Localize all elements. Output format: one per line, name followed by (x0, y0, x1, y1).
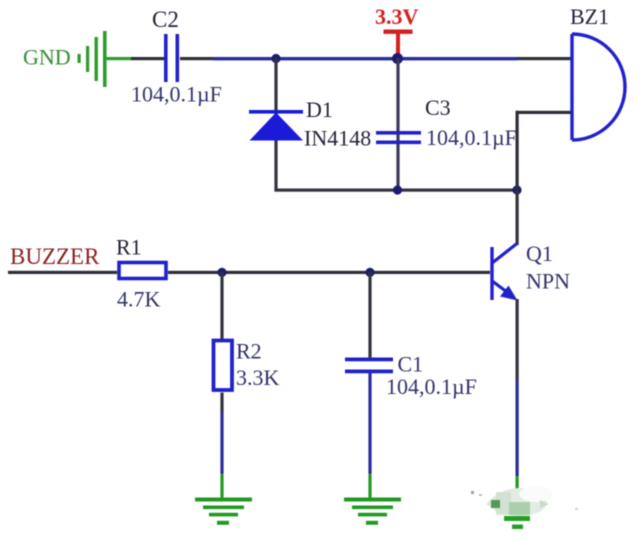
svg-text:BUZZER: BUZZER (10, 244, 100, 269)
wire GND to C2 (green then dark) (107, 57, 132, 60)
svg-text:104,0.1µF: 104,0.1µF (426, 125, 517, 150)
node junction at 3.3V rail (392, 53, 403, 64)
wire top rail blue (213, 57, 517, 60)
node junction R1/R2 (217, 268, 226, 277)
wire top rail dark to buzzer (517, 57, 573, 60)
wire D1 branch vertical (274, 58, 277, 190)
resistor R2 (214, 341, 233, 391)
wire bottom rail of top section (274, 189, 518, 192)
svg-text:104,0.1µF: 104,0.1µF (131, 82, 222, 107)
wire BUZZER input (8, 271, 117, 274)
transistor Q1 (492, 244, 517, 301)
node junction below buzzer wire (512, 185, 521, 194)
ground below R2 (195, 498, 252, 525)
svg-text:R2: R2 (236, 339, 262, 364)
capacitor C2 (164, 34, 179, 82)
svg-text:104,0.1µF: 104,0.1µF (386, 374, 477, 399)
buzzer BZ1 (572, 34, 625, 140)
ground (power ground symbol, rotated, left) (78, 31, 107, 87)
wire C1 to ground (blue then green) (368, 373, 371, 474)
svg-text:NPN: NPN (526, 269, 570, 294)
resistor R1 (119, 263, 166, 279)
svg-text:D1: D1 (306, 97, 333, 122)
node junction at D1 rail (271, 54, 280, 63)
ground below C1 (344, 498, 401, 525)
wire C1 branch vertical (368, 272, 371, 358)
wire R1 to base (168, 271, 490, 274)
wire emitter vertical (dark, blue, green) (516, 299, 519, 380)
power 3.3V symbol (384, 30, 413, 34)
svg-text:C2: C2 (152, 7, 179, 32)
watermark blob over emitter ground (471, 486, 578, 516)
capacitor C3 (376, 131, 421, 144)
wire C3 branch vertical (396, 58, 399, 190)
capacitor C1 (345, 358, 393, 374)
svg-text:C3: C3 (425, 95, 451, 120)
wire R2 to ground (dark, blue, green) (220, 393, 223, 413)
wire collector vertical (516, 190, 519, 245)
svg-text:GND: GND (23, 45, 71, 70)
svg-text:Q1: Q1 (526, 241, 553, 266)
svg-text:R1: R1 (116, 235, 142, 260)
wire R2 branch vertical (220, 272, 223, 340)
svg-text:BZ1: BZ1 (570, 4, 609, 29)
wire C2 to rail (dark then blue) (180, 57, 213, 60)
svg-text:IN4148: IN4148 (304, 126, 371, 151)
svg-text:4.7K: 4.7K (117, 287, 161, 312)
transistor Q1 emitter arrow (500, 286, 518, 301)
diode D1 (249, 110, 303, 141)
wire buzzer bottom pin (516, 111, 573, 114)
svg-text:3.3V: 3.3V (375, 4, 419, 29)
svg-text:3.3K: 3.3K (236, 365, 280, 390)
svg-text:C1: C1 (398, 352, 424, 377)
node junction C1 (365, 268, 374, 277)
ground below Q1 emitter (partially visible) (504, 516, 530, 529)
node junction below C3 (393, 185, 402, 194)
